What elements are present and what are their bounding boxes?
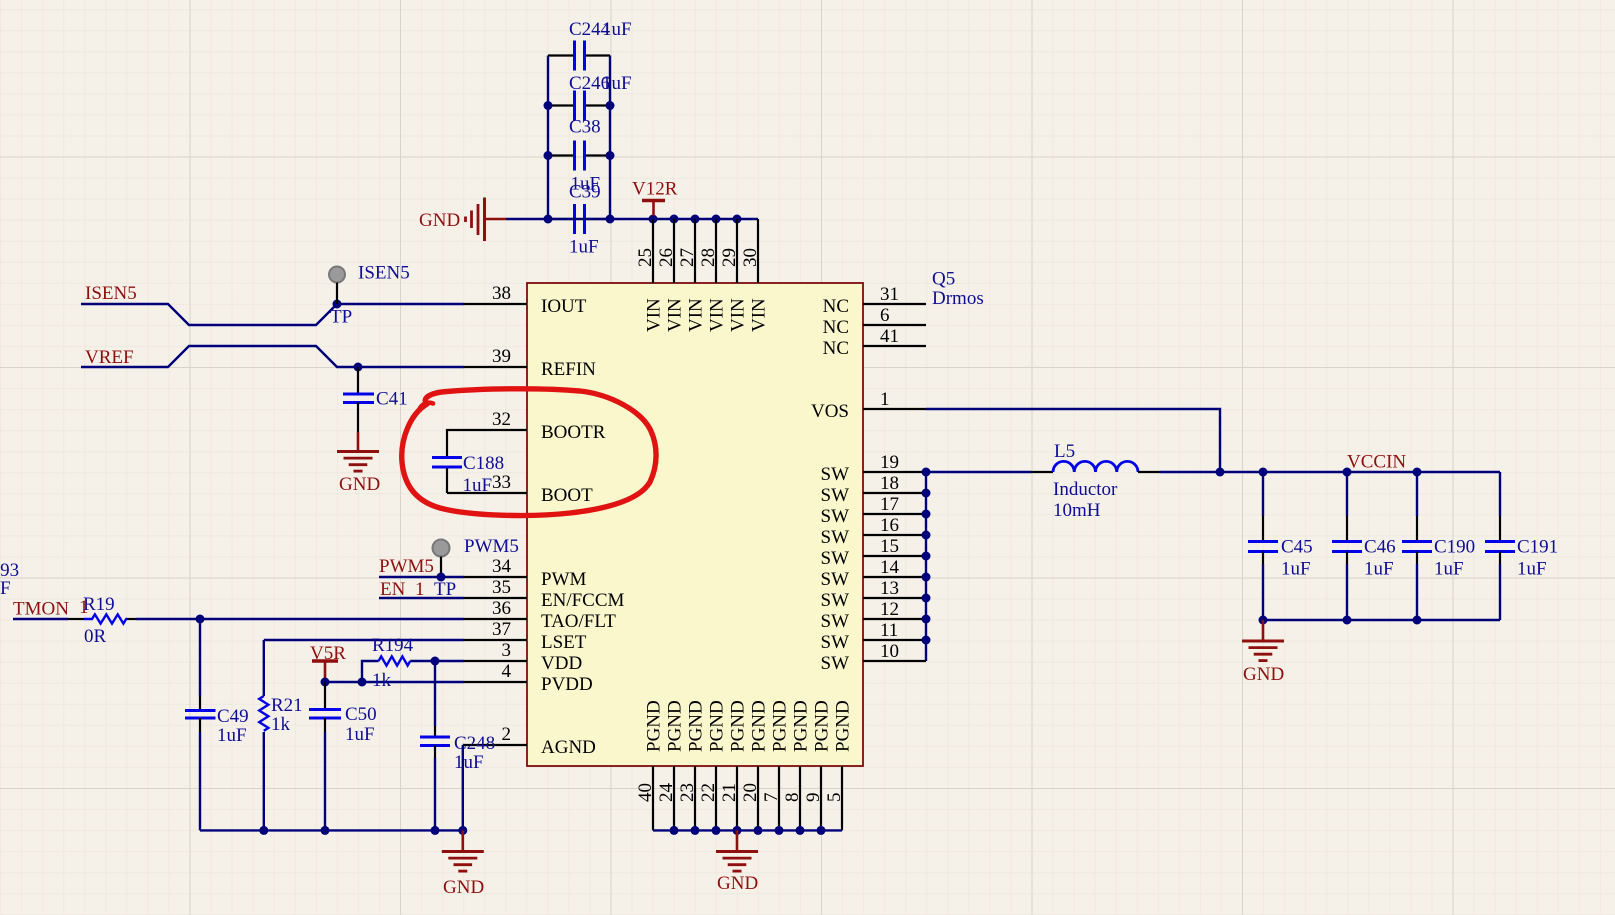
pin 18 SW stub <box>863 492 926 494</box>
junction AGND bus <box>458 826 467 835</box>
capacitor C248 <box>420 726 450 758</box>
wire cap-stack right rail <box>609 56 611 220</box>
label C190 <box>1434 537 1475 558</box>
label C49 <box>217 706 249 727</box>
pin number 8 <box>782 793 803 803</box>
pin name VDD <box>541 653 582 674</box>
pin 3 VDD stub <box>464 660 527 662</box>
label L5 <box>1054 441 1075 462</box>
pin number 16 <box>880 515 899 536</box>
pin number 28 <box>698 248 719 267</box>
power port VCCIN <box>1347 452 1406 473</box>
svg-text:PWM: PWM <box>541 569 587 590</box>
capacitor C246 <box>548 91 610 121</box>
pin number 35 <box>492 577 511 598</box>
value 1uF of C244 <box>602 19 632 40</box>
svg-text:SW: SW <box>821 548 850 569</box>
junction TMON/C49 <box>196 615 205 624</box>
pin number 21 <box>719 783 740 802</box>
svg-text:38: 38 <box>492 283 511 304</box>
annotation red circle around BOOT pins <box>402 389 656 516</box>
wire inductor to VCCIN rail <box>1160 471 1500 473</box>
pin 22 PGND <box>715 766 717 830</box>
pin number 4 <box>502 661 512 682</box>
wire R19 to pin 36 <box>136 618 464 620</box>
svg-text:VIN: VIN <box>686 298 707 332</box>
svg-text:13: 13 <box>880 578 899 599</box>
svg-text:PWM5: PWM5 <box>379 556 434 577</box>
wire cap-stack left rail <box>547 56 549 220</box>
junction VOS to SW <box>1216 468 1225 477</box>
ground GND (below PGND bus) <box>716 830 758 894</box>
capacitor C38 <box>548 141 610 171</box>
ground GND (top, left of C39) <box>419 198 506 242</box>
svg-text:C50: C50 <box>345 704 377 725</box>
svg-text:LSET: LSET <box>541 632 587 653</box>
svg-text:35: 35 <box>492 577 511 598</box>
wire BOOTR-C188 bracket <box>447 430 464 493</box>
comment Inductor <box>1053 479 1118 500</box>
svg-text:PGND: PGND <box>728 700 749 752</box>
pin number 36 <box>492 598 511 619</box>
pin 16 SW stub <box>863 534 926 536</box>
pin name PGND <box>812 700 833 752</box>
value 1uF of C248 <box>454 752 484 773</box>
label C188 <box>463 453 504 474</box>
wire VCCIN to C191 <box>1499 472 1501 516</box>
junction dots PGND bus <box>670 826 826 835</box>
label C50 <box>345 704 377 725</box>
pin 7 PGND <box>778 766 780 830</box>
pin 20 PGND <box>757 766 759 830</box>
designator Q5 <box>932 269 955 290</box>
pin name SW <box>821 653 850 674</box>
svg-text:21: 21 <box>719 783 740 802</box>
pin 36 TAO/FLT stub <box>464 618 527 620</box>
svg-text:R194: R194 <box>372 635 414 656</box>
value 1uF of C50 <box>345 724 375 745</box>
svg-text:VIN: VIN <box>644 298 665 332</box>
pin 1 VOS stub <box>863 408 926 410</box>
svg-text:R21: R21 <box>271 695 303 716</box>
pin 39 REFIN stub <box>464 366 527 368</box>
svg-text:V5R: V5R <box>310 643 346 664</box>
wire C248 to ground bus <box>434 758 436 830</box>
pin number 6 <box>880 305 890 326</box>
pin 17 SW stub <box>863 513 926 515</box>
wire pin 2 AGND down <box>463 745 464 830</box>
capacitor C41 <box>343 367 374 432</box>
svg-text:33: 33 <box>492 472 511 493</box>
pin 15 SW stub <box>863 555 926 557</box>
svg-text:0R: 0R <box>84 626 107 647</box>
svg-text:R19: R19 <box>83 594 115 615</box>
junction R194 tap <box>358 678 367 687</box>
wire C190 to ground bus <box>1416 564 1418 620</box>
svg-text:ISEN5: ISEN5 <box>358 263 410 284</box>
pin number 31 <box>880 284 899 305</box>
svg-text:V12R: V12R <box>632 179 678 200</box>
value 1uF of C45 <box>1281 559 1311 580</box>
pin name PGND <box>665 700 686 752</box>
wire C191 to ground bus <box>1499 564 1501 620</box>
svg-text:TAO/FLT: TAO/FLT <box>541 611 616 632</box>
svg-text:NC: NC <box>823 296 849 317</box>
pin 33 BOOT stub <box>464 492 527 494</box>
label C38 <box>569 117 601 138</box>
wire ISEN5 to pin 38 <box>81 304 464 325</box>
svg-text:NC: NC <box>823 338 849 359</box>
wire PWM5 to pin 34 <box>379 576 464 578</box>
pin 23 PGND <box>694 766 696 830</box>
svg-text:24: 24 <box>656 783 677 803</box>
pin name VIN <box>686 298 707 332</box>
wire pin 37 LSET <box>264 639 464 641</box>
svg-text:GND: GND <box>419 210 460 231</box>
pin name VIN <box>644 298 665 332</box>
label C46 <box>1364 537 1396 558</box>
svg-text:BOOT: BOOT <box>541 485 593 506</box>
capacitor C50 <box>309 682 341 732</box>
wire R194 to pin 3 VDD <box>410 660 464 662</box>
pin name VIN <box>728 298 749 332</box>
pin name IOUT <box>541 296 587 317</box>
pin name NC <box>823 296 849 317</box>
net label TMON_1 <box>13 597 89 620</box>
svg-text:VIN: VIN <box>665 298 686 332</box>
pin name PGND <box>833 700 854 752</box>
pin 41 NC stub <box>863 345 926 347</box>
svg-text:19: 19 <box>880 452 899 473</box>
junction pin3/C248 <box>431 657 440 666</box>
wire VOS pin 1 <box>926 409 1220 472</box>
junction V5R/C50 <box>321 678 330 687</box>
svg-text:PGND: PGND <box>707 700 728 752</box>
svg-text:PGND: PGND <box>749 700 770 752</box>
pin number 29 <box>719 248 740 267</box>
svg-text:SW: SW <box>821 464 850 485</box>
svg-text:4: 4 <box>502 661 512 682</box>
svg-text:10: 10 <box>880 641 899 662</box>
svg-text:17: 17 <box>880 494 899 515</box>
pin name NC <box>823 338 849 359</box>
wire analog ground bus <box>200 829 463 831</box>
junction PWM5 at TP <box>437 573 446 582</box>
pin name SW <box>821 611 850 632</box>
pin name PGND <box>791 700 812 752</box>
pin name BOOT <box>541 485 593 506</box>
pin name TAO/FLT <box>541 611 616 632</box>
pin number 40 <box>635 783 656 802</box>
svg-text:11: 11 <box>880 620 898 641</box>
svg-text:C38: C38 <box>569 117 601 138</box>
value 1uF of C39 <box>569 237 599 258</box>
wire junction to C49 <box>199 619 201 696</box>
resistor R194 <box>379 656 411 665</box>
pin name LSET <box>541 632 587 653</box>
pin name PVDD <box>541 674 593 695</box>
pin 11 SW stub <box>863 639 926 641</box>
svg-text:SW: SW <box>821 653 850 674</box>
wire C50 to ground bus <box>324 732 326 830</box>
net label ISEN5 <box>85 283 137 304</box>
svg-text:23: 23 <box>677 783 698 802</box>
power port V5R <box>310 643 346 682</box>
svg-text:25: 25 <box>635 248 656 267</box>
designator ISEN5 (testpoint) <box>358 263 410 284</box>
wire tap up to R194 <box>362 661 379 682</box>
capacitor C244 <box>548 41 610 71</box>
pin name REFIN <box>541 359 596 380</box>
junction dots SW bus <box>922 468 931 645</box>
value 1uF of C246 <box>602 73 632 94</box>
svg-text:NC: NC <box>823 317 849 338</box>
pin number 13 <box>880 578 899 599</box>
value 1uF of C188 <box>463 475 493 496</box>
svg-text:1uF: 1uF <box>1434 559 1464 580</box>
pin 9 PGND <box>820 766 822 830</box>
capacitor C188 <box>432 458 462 468</box>
svg-text:1uF: 1uF <box>454 752 484 773</box>
pin number 34 <box>492 556 512 577</box>
svg-text:TP: TP <box>330 307 352 328</box>
junction dots VCCIN ground bus <box>1259 616 1422 625</box>
svg-text:VIN: VIN <box>707 298 728 332</box>
svg-text:12: 12 <box>880 599 899 620</box>
pin name SW <box>821 527 850 548</box>
pin number 37 <box>492 619 511 640</box>
testpoint TP (PWM5) <box>433 540 450 578</box>
wire C49 to ground bus <box>199 732 201 830</box>
net label EN_1 <box>380 579 425 600</box>
label C246 <box>569 73 610 94</box>
pin 6 NC stub <box>863 324 926 326</box>
pin number 14 <box>880 557 900 578</box>
pin name SW <box>821 569 850 590</box>
svg-text:VDD: VDD <box>541 653 582 674</box>
label C41 <box>376 389 408 410</box>
pin name BOOTR <box>541 422 606 443</box>
value 1k of R21 <box>271 714 291 735</box>
label C244 <box>569 19 611 40</box>
svg-text:1uF: 1uF <box>463 475 493 496</box>
svg-text:SW: SW <box>821 527 850 548</box>
svg-text:26: 26 <box>656 248 677 267</box>
svg-text:SW: SW <box>821 611 850 632</box>
value 1uF (clipped at edge) <box>0 578 11 599</box>
pin 10 SW stub <box>863 660 926 662</box>
pin name PGND <box>728 700 749 752</box>
value 1uF of C191 <box>1517 559 1547 580</box>
pin name SW <box>821 548 850 569</box>
svg-text:39: 39 <box>492 346 511 367</box>
value 1k of R194 <box>372 670 392 691</box>
svg-text:SW: SW <box>821 569 850 590</box>
wire VCCIN to C46 <box>1346 472 1348 516</box>
svg-text:PGND: PGND <box>812 700 833 752</box>
wire VCCIN ground bus <box>1263 619 1500 621</box>
pin number 26 <box>656 248 677 267</box>
pin name EN/FCCM <box>541 590 625 611</box>
pin number 17 <box>880 494 899 515</box>
svg-text:IOUT: IOUT <box>541 296 587 317</box>
comment TP (ISEN5) <box>330 307 352 328</box>
wire TMON to R19 <box>13 618 68 620</box>
svg-text:PGND: PGND <box>770 700 791 752</box>
pin 14 SW stub <box>863 576 926 578</box>
pin name PGND <box>770 700 791 752</box>
svg-text:9: 9 <box>803 793 824 803</box>
svg-text:C49: C49 <box>217 706 249 727</box>
pin name VIN <box>749 298 770 332</box>
pin 40 PGND <box>652 766 654 830</box>
pin 19 SW stub <box>863 471 926 473</box>
wire PGND bus <box>653 829 842 831</box>
resistor R21 <box>259 696 268 731</box>
svg-text:C248: C248 <box>454 733 495 754</box>
svg-text:5: 5 <box>824 793 845 803</box>
pin name SW <box>821 590 850 611</box>
pin number 1 <box>880 389 890 410</box>
wires VIN top pins 25-30 <box>653 219 758 283</box>
svg-text:31: 31 <box>880 284 899 305</box>
junction C248 bus <box>431 826 440 835</box>
svg-text:GND: GND <box>717 873 758 894</box>
pin 34 PWM stub <box>464 576 527 578</box>
junction dots top rail <box>544 215 742 224</box>
pin number 30 <box>740 248 761 267</box>
pin 21 PGND <box>736 766 738 830</box>
svg-text:REFIN: REFIN <box>541 359 596 380</box>
svg-text:7: 7 <box>761 793 782 803</box>
pin number 12 <box>880 599 899 620</box>
svg-text:VOS: VOS <box>811 401 849 422</box>
svg-text:Drmos: Drmos <box>932 288 984 309</box>
svg-text:SW: SW <box>821 485 850 506</box>
svg-text:1: 1 <box>880 389 890 410</box>
designator PWM5 (testpoint) <box>464 536 519 557</box>
junction ISEN5 at TP <box>333 300 342 309</box>
svg-text:PGND: PGND <box>791 700 812 752</box>
svg-text:L5: L5 <box>1054 441 1075 462</box>
pin 2 AGND stub <box>464 744 527 746</box>
pin number 19 <box>880 452 899 473</box>
svg-text:10mH: 10mH <box>1053 500 1101 521</box>
svg-text:SW: SW <box>821 590 850 611</box>
svg-text:1k: 1k <box>271 714 291 735</box>
svg-text:1k: 1k <box>372 670 392 691</box>
pin name SW <box>821 632 850 653</box>
capacitor C46 <box>1332 516 1362 564</box>
svg-text:1uF: 1uF <box>345 724 375 745</box>
svg-text:PGND: PGND <box>665 700 686 752</box>
wire EN_1 to pin 35 <box>379 597 464 599</box>
svg-text:20: 20 <box>740 783 761 802</box>
svg-text:VCCIN: VCCIN <box>1347 452 1406 473</box>
ground GND (below AGND) <box>442 830 484 898</box>
label R21 <box>271 695 303 716</box>
pin 24 PGND <box>673 766 675 830</box>
svg-text:1uF: 1uF <box>217 725 247 746</box>
svg-text:C190: C190 <box>1434 537 1475 558</box>
svg-text:29: 29 <box>719 248 740 267</box>
power port V12R <box>632 179 678 216</box>
pin number 32 <box>492 409 511 430</box>
capacitor C45 <box>1248 516 1278 564</box>
junction VREF at C41 <box>354 363 363 372</box>
svg-text:SW: SW <box>821 506 850 527</box>
wire C45 to ground bus <box>1262 564 1264 620</box>
pin 32 BOOTR stub <box>464 429 527 431</box>
svg-text:3: 3 <box>502 640 512 661</box>
value 10mH of L5 <box>1053 500 1101 521</box>
svg-text:1uF: 1uF <box>1364 559 1394 580</box>
svg-text:8: 8 <box>782 793 803 803</box>
svg-text:40: 40 <box>635 783 656 802</box>
value 1uF of C190 <box>1434 559 1464 580</box>
pin number 38 <box>492 283 511 304</box>
wire R21 to ground bus <box>263 732 265 830</box>
value 1uF of C49 <box>217 725 247 746</box>
pin number 15 <box>880 536 899 557</box>
pin 35 EN/FCCM stub <box>464 597 527 599</box>
net label VREF <box>85 347 134 368</box>
pin number 10 <box>880 641 899 662</box>
pin 4 PVDD stub <box>464 681 527 683</box>
wire V5R to pin 4 PVDD <box>325 681 464 683</box>
pin name AGND <box>541 737 596 758</box>
svg-text:1uF: 1uF <box>569 237 599 258</box>
pin name PGND <box>749 700 770 752</box>
pin name SW <box>821 506 850 527</box>
pin name VIN <box>665 298 686 332</box>
ic U-Drmos Q5 body <box>527 283 863 766</box>
pin 31 NC stub <box>863 303 926 305</box>
svg-text:GND: GND <box>339 474 380 495</box>
svg-text:PGND: PGND <box>833 700 854 752</box>
resistor R19 <box>68 614 136 623</box>
pin name VOS <box>811 401 849 422</box>
svg-text:15: 15 <box>880 536 899 557</box>
wire VCCIN to C190 <box>1416 472 1418 516</box>
svg-text:GND: GND <box>443 877 484 898</box>
label C39 <box>569 182 601 203</box>
svg-text:28: 28 <box>698 248 719 267</box>
svg-text:C191: C191 <box>1517 537 1558 558</box>
wire VREF to pin 39 <box>81 346 464 367</box>
svg-text:TMON: TMON <box>13 599 69 620</box>
svg-text:22: 22 <box>698 783 719 802</box>
pin number 24 <box>656 783 677 803</box>
value 1uF of C38 <box>571 174 601 195</box>
comment TP (PWM5) <box>434 579 456 600</box>
svg-text:1uF: 1uF <box>602 73 632 94</box>
pin 5 PGND <box>841 766 843 830</box>
pin 8 PGND <box>799 766 801 830</box>
svg-text:Q5: Q5 <box>932 269 955 290</box>
svg-text:GND: GND <box>1243 664 1284 685</box>
value 1uF of C46 <box>1364 559 1394 580</box>
capacitor C39 <box>548 204 610 234</box>
svg-text:ISEN5: ISEN5 <box>85 283 137 304</box>
svg-text:PVDD: PVDD <box>541 674 593 695</box>
pin name SW <box>821 485 850 506</box>
label R19 <box>83 594 115 615</box>
svg-text:AGND: AGND <box>541 737 596 758</box>
svg-text:37: 37 <box>492 619 511 640</box>
svg-text:18: 18 <box>880 473 899 494</box>
pin number 22 <box>698 783 719 802</box>
